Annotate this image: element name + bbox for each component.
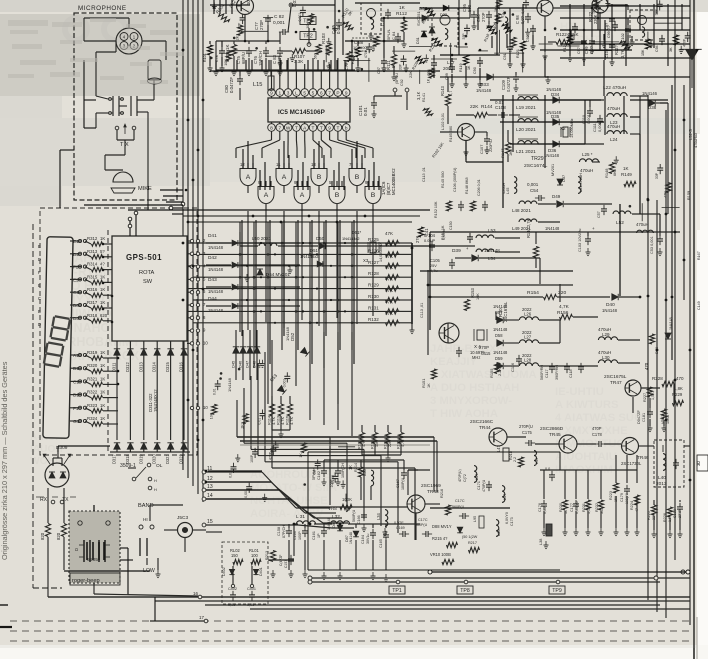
transistor Q top bbox=[237, 0, 254, 15]
junction d bbox=[339, 523, 342, 526]
resistor R119 bbox=[459, 55, 471, 72]
LED D309 bbox=[43, 445, 71, 504]
junction bbox=[303, 483, 306, 486]
wire bbox=[543, 470, 545, 499]
wire bbox=[447, 323, 449, 343]
electrolytic C103 bbox=[578, 226, 595, 252]
capacitor C85 bbox=[331, 19, 342, 34]
wire bbox=[219, 0, 221, 14]
capacitor C98 bbox=[515, 13, 531, 24]
wire bbox=[143, 341, 145, 349]
wire bbox=[630, 95, 648, 97]
wire bbox=[222, 310, 400, 312]
inductor L47 bbox=[496, 444, 509, 461]
wire bbox=[85, 279, 91, 282]
resistor bbox=[314, 44, 322, 59]
node c8 bbox=[190, 340, 208, 345]
junction bbox=[238, 368, 241, 371]
wire bbox=[591, 41, 619, 43]
wire bbox=[323, 155, 325, 169]
wire bbox=[597, 4, 599, 30]
label IC6 IC7 bbox=[381, 168, 396, 195]
wire bbox=[183, 242, 222, 244]
wire bbox=[265, 181, 267, 187]
capacitor C94 bbox=[655, 35, 665, 52]
junction d bbox=[308, 215, 311, 218]
resistor R141b bbox=[415, 227, 424, 243]
wire bbox=[544, 16, 546, 30]
diode D319 bbox=[138, 443, 147, 464]
wire bbox=[304, 131, 306, 140]
capacitor C110 bbox=[581, 107, 593, 124]
wire bbox=[429, 232, 431, 246]
inductor L17b bbox=[443, 60, 455, 71]
wire bbox=[570, 41, 586, 43]
junction b bbox=[187, 221, 190, 224]
wire bbox=[85, 292, 91, 295]
wire bbox=[10, 620, 690, 622]
wire bbox=[604, 20, 606, 60]
wire bbox=[206, 489, 280, 491]
label right1 bbox=[697, 251, 701, 260]
wire bbox=[403, 18, 405, 21]
diode D58 bbox=[493, 327, 508, 346]
wire bbox=[304, 64, 306, 89]
wire bbox=[475, 131, 487, 133]
wire bbox=[345, 494, 347, 502]
capacitor C91 bbox=[503, 43, 513, 60]
pin b3 bbox=[293, 124, 301, 132]
wire bbox=[70, 380, 81, 382]
wire bbox=[473, 21, 475, 24]
capacitor C99 bbox=[584, 37, 595, 54]
inductor L19 bbox=[516, 95, 538, 111]
wire bbox=[522, 52, 524, 62]
wire bbox=[329, 437, 331, 505]
test point TP9 bbox=[549, 586, 565, 594]
wire bbox=[129, 449, 131, 452]
junction t1 bbox=[370, 17, 406, 43]
wire bbox=[321, 148, 323, 158]
ground bbox=[326, 38, 331, 46]
junction bbox=[326, 26, 329, 29]
inductor L37 bbox=[458, 466, 479, 483]
wire bbox=[368, 58, 370, 82]
wire bbox=[337, 222, 339, 404]
wire bbox=[165, 41, 167, 60]
wire bbox=[236, 140, 272, 148]
wire bbox=[411, 243, 413, 324]
transistor TR45 bbox=[540, 426, 577, 453]
wire bbox=[478, 50, 488, 52]
resistor R126 bbox=[368, 242, 399, 257]
wire bbox=[639, 96, 641, 134]
wire bbox=[85, 355, 91, 358]
inductor L23 bbox=[607, 106, 627, 125]
mic connector J1 bbox=[116, 28, 142, 54]
wire bbox=[564, 511, 566, 528]
capacitor C206 bbox=[477, 179, 488, 211]
wire bbox=[242, 330, 244, 347]
wire bbox=[262, 472, 296, 508]
node top1 bbox=[128, 211, 138, 228]
resistor R227 bbox=[643, 387, 655, 402]
node 12 bbox=[202, 476, 213, 484]
wire bbox=[649, 419, 651, 426]
label R159 bbox=[687, 191, 691, 200]
label RX TX bbox=[36, 497, 76, 503]
resistor R323 bbox=[73, 403, 105, 413]
junction d bbox=[182, 49, 185, 52]
ground t2 bbox=[369, 32, 407, 81]
wire bbox=[271, 482, 305, 513]
resistor R214 bbox=[348, 462, 364, 477]
ground bbox=[404, 64, 409, 72]
wire bbox=[70, 278, 81, 280]
wire bbox=[660, 102, 668, 104]
wire bbox=[304, 140, 306, 148]
junction m bbox=[330, 265, 332, 267]
wire bbox=[569, 46, 571, 56]
wire bbox=[351, 222, 353, 350]
node c6 bbox=[190, 315, 206, 320]
pin b7 bbox=[326, 124, 334, 132]
diode D54 bbox=[257, 269, 290, 277]
wire bbox=[604, 443, 621, 445]
wire bbox=[356, 163, 358, 169]
wire bbox=[163, 195, 183, 197]
diode D312 bbox=[125, 349, 134, 372]
wire bbox=[313, 163, 315, 169]
wire bbox=[70, 367, 81, 369]
wire bbox=[279, 122, 281, 124]
resistor bbox=[494, 0, 502, 12]
inductor L35 bbox=[362, 468, 374, 485]
wire bbox=[85, 421, 91, 424]
ground t9 bbox=[610, 58, 615, 66]
IC U5 MC145106P bbox=[268, 98, 350, 122]
junction bbox=[309, 322, 312, 325]
wire bbox=[345, 122, 347, 124]
junction m bbox=[288, 265, 290, 267]
wire bbox=[383, 41, 385, 58]
capacitor bbox=[213, 380, 221, 395]
diode D31 bbox=[416, 31, 427, 44]
wire bbox=[236, 400, 238, 437]
wire bbox=[495, 237, 520, 239]
wire bbox=[119, 105, 127, 107]
wire bbox=[544, 95, 546, 168]
junction bbox=[219, 377, 222, 380]
wire bbox=[193, 299, 222, 301]
wire bbox=[182, 0, 184, 470]
junction d bbox=[182, 299, 185, 302]
wire bbox=[244, 0, 246, 1]
gate U3 B bbox=[311, 169, 327, 186]
wire bbox=[329, 122, 331, 124]
wire bbox=[663, 420, 665, 426]
wire bbox=[330, 140, 356, 148]
wire bbox=[314, 517, 342, 519]
junction bbox=[253, 287, 256, 290]
resistor R130 bbox=[368, 288, 399, 303]
node c7 bbox=[190, 328, 206, 333]
microphone enclosure bbox=[74, 13, 177, 200]
transistor TR44 bbox=[470, 419, 507, 446]
wire bbox=[636, 455, 638, 483]
enclosure dash bbox=[32, 224, 34, 588]
filter L40 bbox=[654, 440, 684, 487]
wire bbox=[323, 460, 325, 468]
wire bbox=[222, 253, 400, 255]
capacitor C103b bbox=[0, 0, 1, 1]
diode D3110 bbox=[152, 443, 161, 464]
wire bbox=[47, 537, 49, 597]
wire bbox=[656, 0, 658, 14]
svg-text:560: 560 bbox=[572, 34, 576, 40]
wire bbox=[84, 99, 96, 101]
wire bbox=[321, 140, 331, 148]
wire bbox=[509, 53, 511, 62]
junction bbox=[504, 12, 507, 15]
wire bbox=[227, 50, 257, 52]
wire bbox=[143, 449, 145, 452]
wire bbox=[206, 286, 231, 288]
wire bbox=[372, 524, 374, 528]
wire bbox=[532, 35, 534, 44]
wire bbox=[345, 96, 347, 98]
resistor R123b bbox=[669, 35, 679, 52]
svg-text:30: 30 bbox=[696, 461, 701, 466]
wire bbox=[428, 296, 543, 298]
wire bbox=[507, 154, 509, 162]
inductor L16 bbox=[636, 222, 653, 233]
electrolytic C88 bbox=[352, 38, 374, 51]
wire bbox=[403, 460, 405, 470]
wire bbox=[61, 458, 63, 466]
wire bbox=[239, 70, 241, 76]
IC GPS-501 bbox=[112, 236, 187, 341]
capacitor C79 bbox=[345, 53, 355, 70]
wire bbox=[502, 95, 504, 208]
node oc2 bbox=[428, 570, 690, 574]
wire bbox=[252, 163, 254, 169]
ground p5 bbox=[208, 64, 225, 72]
resistor bbox=[241, 414, 249, 429]
resistor R116 bbox=[285, 404, 295, 425]
wire bbox=[619, 296, 640, 298]
resistor R315 bbox=[73, 274, 105, 284]
wire bbox=[364, 148, 366, 158]
ground t7 bbox=[508, 60, 526, 68]
resistor R311 bbox=[56, 524, 67, 541]
diode D3112 bbox=[179, 443, 188, 464]
wire bbox=[671, 85, 673, 360]
wire bbox=[287, 58, 289, 89]
filter T1 bbox=[361, 3, 381, 34]
wire bbox=[129, 341, 131, 349]
junction d bbox=[192, 179, 195, 182]
wire bbox=[339, 524, 341, 528]
wire bbox=[428, 284, 573, 286]
wire bbox=[323, 522, 348, 524]
wire bbox=[465, 141, 467, 160]
capacitor C175 bbox=[519, 424, 535, 446]
capacitor C84 bbox=[386, 28, 401, 43]
inductor L45 bbox=[502, 177, 517, 194]
wire bbox=[558, 45, 580, 47]
inductor L24 bbox=[607, 124, 627, 142]
resistor R127 bbox=[368, 254, 399, 269]
inductor L20 bbox=[516, 117, 538, 133]
wire bbox=[169, 207, 183, 209]
junction m bbox=[246, 265, 248, 267]
wire bbox=[280, 60, 282, 71]
junction b bbox=[192, 265, 195, 268]
wire bbox=[336, 181, 338, 187]
inductor L17 bbox=[496, 2, 510, 33]
wire bbox=[206, 498, 289, 500]
inductor L30 bbox=[598, 350, 618, 363]
wire bbox=[539, 43, 553, 45]
pin L bbox=[293, 89, 301, 97]
wire bbox=[407, 470, 409, 495]
wire bbox=[320, 131, 322, 140]
wire bbox=[153, 96, 155, 100]
wire bbox=[339, 220, 341, 350]
junction d bbox=[364, 215, 367, 218]
wire bbox=[330, 148, 332, 158]
resistor R123 bbox=[614, 39, 630, 58]
wire bbox=[243, 388, 245, 443]
wire bbox=[399, 253, 412, 255]
relay RL01 bbox=[249, 548, 261, 565]
wire bbox=[247, 163, 249, 169]
wire bbox=[288, 540, 290, 570]
wire bbox=[84, 204, 183, 206]
resistor R156t bbox=[500, 9, 512, 34]
capacitor C177b bbox=[545, 467, 555, 481]
wire bbox=[170, 341, 172, 349]
wire bbox=[611, 4, 613, 48]
wire bbox=[278, 163, 280, 169]
wire bbox=[301, 181, 303, 187]
junction m bbox=[274, 288, 276, 290]
wire bbox=[317, 60, 319, 71]
junction m bbox=[344, 242, 346, 244]
wire bbox=[283, 220, 285, 336]
wire bbox=[209, 56, 211, 66]
capacitor C170b bbox=[415, 518, 432, 537]
wire bbox=[540, 469, 637, 471]
resistor R144 bbox=[470, 104, 493, 118]
wire bbox=[630, 133, 640, 135]
inductor L26 bbox=[519, 307, 538, 320]
wire bbox=[414, 468, 416, 540]
wire bbox=[264, 352, 266, 462]
resistor bbox=[664, 183, 672, 198]
capacitor bbox=[250, 448, 258, 463]
wire bbox=[188, 221, 412, 223]
capacitor C97 bbox=[577, 37, 587, 54]
switch 3509-1 bbox=[120, 463, 163, 492]
wire bbox=[202, 0, 204, 502]
wire bbox=[137, 99, 154, 101]
inductor L37b bbox=[502, 486, 507, 503]
wire bbox=[290, 4, 335, 6]
capacitor C93b bbox=[427, 59, 437, 76]
wire bbox=[397, 462, 399, 533]
wire bbox=[639, 4, 641, 30]
resistor R146 bbox=[465, 177, 476, 211]
wire bbox=[103, 370, 118, 372]
capacitor bbox=[238, 14, 246, 29]
pin 9 bbox=[342, 89, 350, 97]
wire bbox=[373, 162, 375, 190]
junction bbox=[351, 265, 354, 268]
junction bbox=[253, 310, 256, 313]
wire bbox=[187, 0, 189, 478]
junction b bbox=[639, 296, 642, 299]
ground bbox=[333, 24, 338, 32]
wire bbox=[129, 355, 131, 440]
wire bbox=[599, 12, 601, 50]
svg-text:C91: C91 bbox=[503, 53, 507, 60]
wire bbox=[187, 266, 190, 268]
wire bbox=[271, 96, 273, 98]
junction bbox=[267, 253, 270, 256]
junction bbox=[239, 253, 242, 256]
wire bbox=[325, 45, 327, 62]
label seg bbox=[38, 296, 41, 301]
wire bbox=[270, 60, 272, 76]
wire bbox=[250, 608, 690, 610]
wire bbox=[433, 69, 435, 78]
wire bbox=[95, 52, 97, 96]
label C104 bbox=[424, 233, 436, 243]
wire bbox=[400, 444, 402, 455]
transistor TR46 bbox=[621, 438, 649, 467]
wire bbox=[311, 220, 313, 364]
inductor L28 bbox=[519, 353, 538, 366]
svg-text:C79: C79 bbox=[345, 63, 349, 70]
label R165 bbox=[449, 126, 453, 142]
wire bbox=[170, 355, 172, 440]
wire bbox=[611, 51, 613, 60]
wire bbox=[222, 276, 400, 278]
resistor bbox=[209, 404, 217, 419]
ground bbox=[260, 360, 265, 368]
junction t5 bbox=[451, 43, 482, 57]
capacitor C80 bbox=[224, 75, 243, 93]
diode D34 bbox=[546, 87, 562, 103]
capacitor C86 bbox=[380, 9, 391, 26]
wire bbox=[673, 384, 675, 403]
capacitor bbox=[683, 32, 691, 47]
wire bbox=[326, 245, 380, 247]
wire bbox=[656, 200, 658, 612]
ground g1 bbox=[214, 68, 283, 76]
resistor bbox=[493, 14, 501, 29]
wire bbox=[393, 46, 395, 54]
capacitor C179 bbox=[620, 485, 630, 504]
gate U4 B bbox=[349, 169, 365, 186]
capacitor C170 bbox=[452, 499, 469, 519]
inductor L22 bbox=[603, 85, 627, 96]
wire bbox=[0, 626, 10, 628]
resistor R128 bbox=[368, 265, 399, 280]
resistor bbox=[299, 443, 307, 458]
